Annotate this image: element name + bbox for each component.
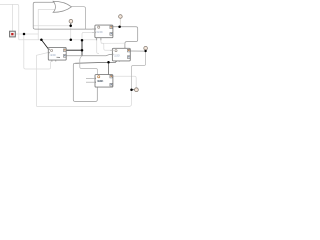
or gate U1 xyxy=(53,1,71,12)
wire: box D output to lamp D xyxy=(113,76,136,87)
wire: clock loop around box D xyxy=(73,63,97,101)
wire: lamp A branch left xyxy=(34,25,71,27)
svg-text:CLOCK: CLOCK xyxy=(50,53,57,57)
flip-flop U3 (box B) xyxy=(92,25,113,40)
junction dot: clock line xyxy=(107,61,110,64)
lamp L3 (right) xyxy=(144,46,148,50)
wire: box A Q output up to rail (active, black) xyxy=(65,40,83,50)
wire: dark stub below box A Q junction xyxy=(81,50,83,55)
wire: lamp B stem xyxy=(119,18,121,26)
wire: button output horizontal xyxy=(15,33,38,35)
wire: box B bottom-right rail extension xyxy=(101,42,125,44)
flip-flop U2 (box A) xyxy=(48,47,66,61)
junction dot: lamp A xyxy=(69,24,72,27)
svg-text:CLOCK: CLOCK xyxy=(97,79,104,83)
junction dot: box B Q lamp xyxy=(118,26,121,29)
wire: OR gate output down to box B upper-left pin xyxy=(71,7,85,29)
junction dot: rail to box B xyxy=(81,39,84,42)
junction dot: lamp D xyxy=(130,88,133,91)
wire: lamp C stem xyxy=(145,50,147,51)
junction dot: rail to box A diagonal xyxy=(40,38,43,41)
wire: feedback vertical and diagonal into box A lower-left pin xyxy=(37,52,49,106)
junction dot: lamp C xyxy=(144,50,146,52)
wire: OR gate upper input from left loop xyxy=(33,2,95,29)
clock generator U5 (box D) xyxy=(86,75,113,88)
push button S1 (red) xyxy=(10,31,16,37)
wire: box B Q output loop to box C top pin xyxy=(113,27,138,48)
svg-text:CLOCK: CLOCK xyxy=(114,54,121,58)
wire: box B bottom-right pin jog to box C upper-left pin xyxy=(101,38,113,50)
svg-text:CLOCK: CLOCK xyxy=(96,30,103,34)
wire: box B lower-left pin up from rail xyxy=(82,32,95,40)
lamp L2 (top middle) xyxy=(119,15,123,19)
lamp L1 (top left) xyxy=(69,19,73,23)
flip-flop U4 (box C) xyxy=(110,47,130,62)
wire: button net down to box A bottom pin xyxy=(24,34,51,69)
wire: box B bottom-left pin down to box C lower-left pin xyxy=(97,38,99,54)
wire: lamp A stem xyxy=(70,23,72,26)
wire: box C Q output to lamp C junction xyxy=(130,50,145,52)
junction dot: button wire xyxy=(23,33,26,36)
wire: lamp C net down and left to lamp D junction xyxy=(131,51,145,89)
lamp L4 (bottom right) xyxy=(135,88,139,92)
wire: lamp D stub xyxy=(132,89,135,91)
junction dot: box A Q xyxy=(81,49,84,52)
junction dot: lamp A rail xyxy=(70,39,73,42)
wire: lamp A branch down to rail xyxy=(70,26,72,40)
wire: clock distribution line to box C bottom pin and box D top pin xyxy=(75,61,116,75)
wire: top-left light loop from button top to OR gate lower input xyxy=(0,4,56,39)
wire: light rail y=39.7 xyxy=(19,39,97,41)
wire: box A lower Q-bar output to box C lower-left pin xyxy=(65,54,113,55)
wire: bottom feedback rail xyxy=(37,90,132,107)
wire: dark diagonal from rail dot to box A upper-left pin xyxy=(41,40,48,50)
wire: clock branch into box D top-left pin xyxy=(80,56,98,75)
